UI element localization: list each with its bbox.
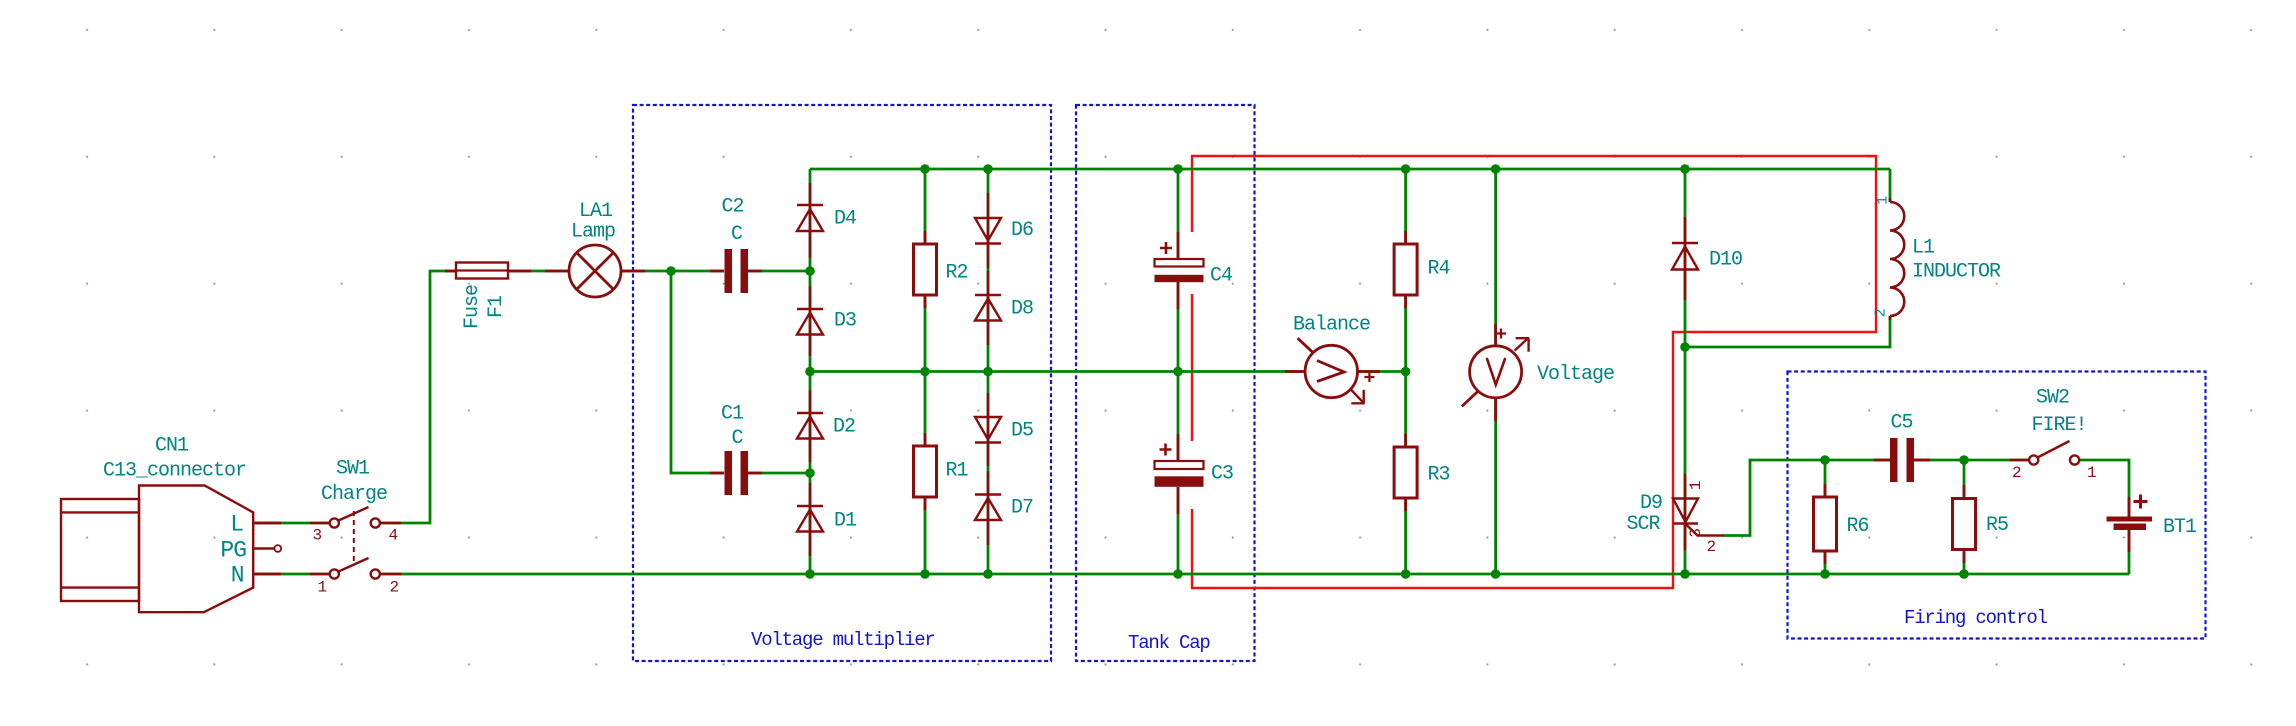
svg-text:SW1: SW1 <box>336 458 370 481</box>
plus sign of C4 <box>1160 242 1172 254</box>
switch SW2 (FIRE) <box>2010 441 2079 465</box>
wire: middle rail <box>810 370 1406 373</box>
meter U Balance <box>1285 370 1380 373</box>
junction voltmeter top <box>1491 164 1501 174</box>
svg-text:D10: D10 <box>1709 249 1742 272</box>
wire: inductor bottom return <box>1685 316 1890 347</box>
svg-text:INDUCTOR: INDUCTOR <box>1912 261 2001 284</box>
capacitor C1 <box>710 472 762 475</box>
svg-text:D3: D3 <box>834 310 856 333</box>
pin L of CN1 <box>253 522 281 525</box>
wire: red highlight segment between C4 and C3 <box>1191 294 1193 441</box>
svg-text:FIRE!: FIRE! <box>2032 414 2087 437</box>
junction SCR bottom <box>1680 569 1690 579</box>
wire: C2 row left <box>671 270 724 273</box>
fuse F1 <box>445 270 531 273</box>
junction D10/SCR node <box>1680 342 1690 352</box>
junction R4/R3 balance node <box>1401 367 1411 377</box>
junction R5 top <box>1959 455 1969 465</box>
diode D2 <box>797 390 823 462</box>
svg-text:C5: C5 <box>1891 412 1913 435</box>
junction R2 top <box>920 164 930 174</box>
battery BT1 <box>2128 497 2131 552</box>
svg-text:D9: D9 <box>1640 492 1662 515</box>
junction R3 bottom <box>1401 569 1411 579</box>
wire: C2 row right to D3/D4 node <box>748 270 810 273</box>
junction voltmeter bottom <box>1491 569 1501 579</box>
meter U Voltage <box>1494 324 1497 421</box>
junction R6 top <box>1820 455 1830 465</box>
junction R5 bottom <box>1959 569 1969 579</box>
svg-text:1: 1 <box>1687 481 1705 490</box>
resistor R6 <box>1824 484 1827 564</box>
wire: D10/SCR column vertical <box>1684 169 1687 574</box>
capacitor C2 <box>710 270 762 273</box>
svg-text:D7: D7 <box>1011 497 1033 520</box>
diode D7 <box>975 471 1001 545</box>
svg-text:C13_connector: C13_connector <box>103 460 246 483</box>
wire: SW1 pin4 up to fuse row <box>380 271 671 523</box>
wire: CN1 pin L to SW1 pin3 <box>253 522 330 525</box>
lamp LA1 <box>545 270 645 273</box>
wire: C3 bottom to bottom rail <box>1177 487 1180 574</box>
diode D8 <box>975 271 1001 345</box>
junction D6 top <box>983 164 993 174</box>
capacitor C4 (polarized) <box>1177 232 1180 309</box>
inductor L1 <box>1889 198 1892 320</box>
junction D10 top <box>1680 164 1690 174</box>
svg-text:C: C <box>731 223 743 246</box>
plus sign of C3 <box>1160 444 1172 456</box>
wire: battery bottom to rail <box>2128 530 2131 574</box>
svg-text:SW2: SW2 <box>2036 387 2069 410</box>
svg-text:C4: C4 <box>1210 265 1232 288</box>
resistor R1 <box>924 433 927 510</box>
box: Firing control section <box>1788 372 2206 639</box>
wire: C4 top pin rail segment <box>1177 169 1180 259</box>
diode D4 <box>797 183 823 258</box>
svg-text:R3: R3 <box>1428 464 1450 487</box>
wire: C4 bottom to C3 top <box>1177 282 1180 461</box>
resistor R3 <box>1404 434 1407 511</box>
svg-text:D1: D1 <box>834 510 857 533</box>
wire: C5 right to SW2 <box>1914 459 2029 462</box>
svg-text:Fuse: Fuse <box>461 285 484 329</box>
svg-text:L1: L1 <box>1912 237 1935 260</box>
svg-text:CN1: CN1 <box>155 435 189 458</box>
plus sign of Voltage meter <box>1496 329 1506 339</box>
svg-text:2: 2 <box>2012 464 2021 482</box>
wire: R6 column <box>1824 460 1827 574</box>
switch SW1 (DPST Charge) <box>310 507 401 579</box>
svg-text:C1: C1 <box>721 403 744 426</box>
svg-text:R4: R4 <box>1428 258 1450 281</box>
junction R1 bottom <box>920 569 930 579</box>
capacitor C3 (polarized) <box>1177 434 1180 514</box>
wire: R5 column <box>1963 460 1966 574</box>
diode D1 <box>797 483 823 556</box>
thyristor D9 (SCR) <box>1673 474 1724 550</box>
resistor R5 <box>1963 485 1966 563</box>
svg-text:C2: C2 <box>722 196 744 219</box>
svg-text:D8: D8 <box>1011 298 1033 321</box>
wire: C1 right to D1/D2 node <box>748 472 810 475</box>
svg-text:D6: D6 <box>1011 219 1033 242</box>
diode D5 <box>975 393 1001 466</box>
junction D1 bottom node <box>805 569 815 579</box>
svg-text:C: C <box>731 427 743 450</box>
wire: CN1 pin N to SW1 pin1 <box>253 573 330 576</box>
svg-text:D5: D5 <box>1011 420 1033 443</box>
junction R6 bottom <box>1820 569 1830 579</box>
wire: bottom rail <box>380 573 2129 576</box>
svg-text:F1: F1 <box>485 295 508 318</box>
svg-text:Voltage multiplier: Voltage multiplier <box>751 629 935 651</box>
svg-text:3: 3 <box>312 526 321 544</box>
box: Voltage multiplier section <box>633 105 1051 661</box>
diode D3 <box>797 286 823 356</box>
svg-text:3: 3 <box>1687 528 1705 537</box>
wire: C5 left row <box>1825 459 1890 462</box>
svg-text:Firing control: Firing control <box>1904 607 2048 629</box>
svg-text:2: 2 <box>1706 538 1715 556</box>
svg-text:D4: D4 <box>834 208 856 231</box>
svg-text:Charge: Charge <box>321 483 387 506</box>
svg-text:R5: R5 <box>1986 514 2008 537</box>
wire: down from node to C1 <box>671 271 724 473</box>
wire: R4/R3 column vertical <box>1404 169 1407 574</box>
svg-text:R6: R6 <box>1847 515 1869 538</box>
junction D8/D5 mid <box>983 367 993 377</box>
svg-text:Lamp: Lamp <box>571 221 615 244</box>
svg-text:1: 1 <box>317 578 326 596</box>
wire: R2/R1 column vertical <box>924 169 927 574</box>
wire: top rail <box>810 168 1890 171</box>
junction D2/D3 mid node <box>805 367 815 377</box>
junction C3 bottom <box>1173 569 1183 579</box>
junction at C2 input node <box>666 266 676 276</box>
svg-text:C3: C3 <box>1211 463 1233 486</box>
box: Tank Cap section <box>1076 105 1255 661</box>
resistor R2 <box>924 231 927 308</box>
svg-text:Tank Cap: Tank Cap <box>1128 632 1210 654</box>
svg-text:SCR: SCR <box>1627 513 1661 536</box>
junction R2/R1 mid <box>920 367 930 377</box>
plus sign of BT1 <box>2134 495 2148 509</box>
junction C4 top <box>1173 164 1183 174</box>
wire: red highlight loop main <box>1192 156 1876 588</box>
wire: diode column D1-D4 vertical <box>809 169 812 574</box>
junction C4/C3 mid <box>1173 367 1183 377</box>
diode D6 <box>975 193 1001 268</box>
svg-text:1: 1 <box>2087 464 2096 482</box>
svg-text:D2: D2 <box>833 416 855 439</box>
junction R4 top <box>1401 164 1411 174</box>
svg-text:1: 1 <box>1875 196 1892 205</box>
connector CN1 body <box>61 486 253 613</box>
svg-text:R1: R1 <box>946 460 969 483</box>
capacitor C5 <box>1874 459 1930 462</box>
junction D1/D2/C1 node <box>805 468 815 478</box>
wire: SCR gate to firing network <box>1723 460 1825 536</box>
pin PG of CN1 (unconnected) <box>253 547 274 549</box>
resistor R4 <box>1404 231 1407 308</box>
junction D3/D4/C2 node <box>805 266 815 276</box>
wire: D6/D8/D5/D7 column vertical <box>987 169 990 574</box>
svg-text:BT1: BT1 <box>2163 516 2197 539</box>
svg-text:4: 4 <box>388 526 397 544</box>
svg-text:Balance: Balance <box>1293 314 1370 337</box>
junction D7 bottom <box>983 569 993 579</box>
svg-text:PG: PG <box>220 538 246 564</box>
wire: inductor top feed <box>1889 169 1892 202</box>
pin N of CN1 <box>253 573 281 576</box>
svg-text:N: N <box>231 563 244 589</box>
svg-text:L: L <box>230 512 243 538</box>
diode D10 <box>1672 217 1698 300</box>
wire: SW2 pin1 to battery top <box>2079 460 2129 517</box>
svg-text:2: 2 <box>389 578 398 596</box>
wire: voltmeter column vertical <box>1494 169 1497 574</box>
svg-text:2: 2 <box>1873 309 1890 318</box>
plus sign of Balance meter <box>1364 372 1374 382</box>
svg-text:R2: R2 <box>946 262 968 285</box>
svg-text:Voltage: Voltage <box>1537 363 1614 386</box>
